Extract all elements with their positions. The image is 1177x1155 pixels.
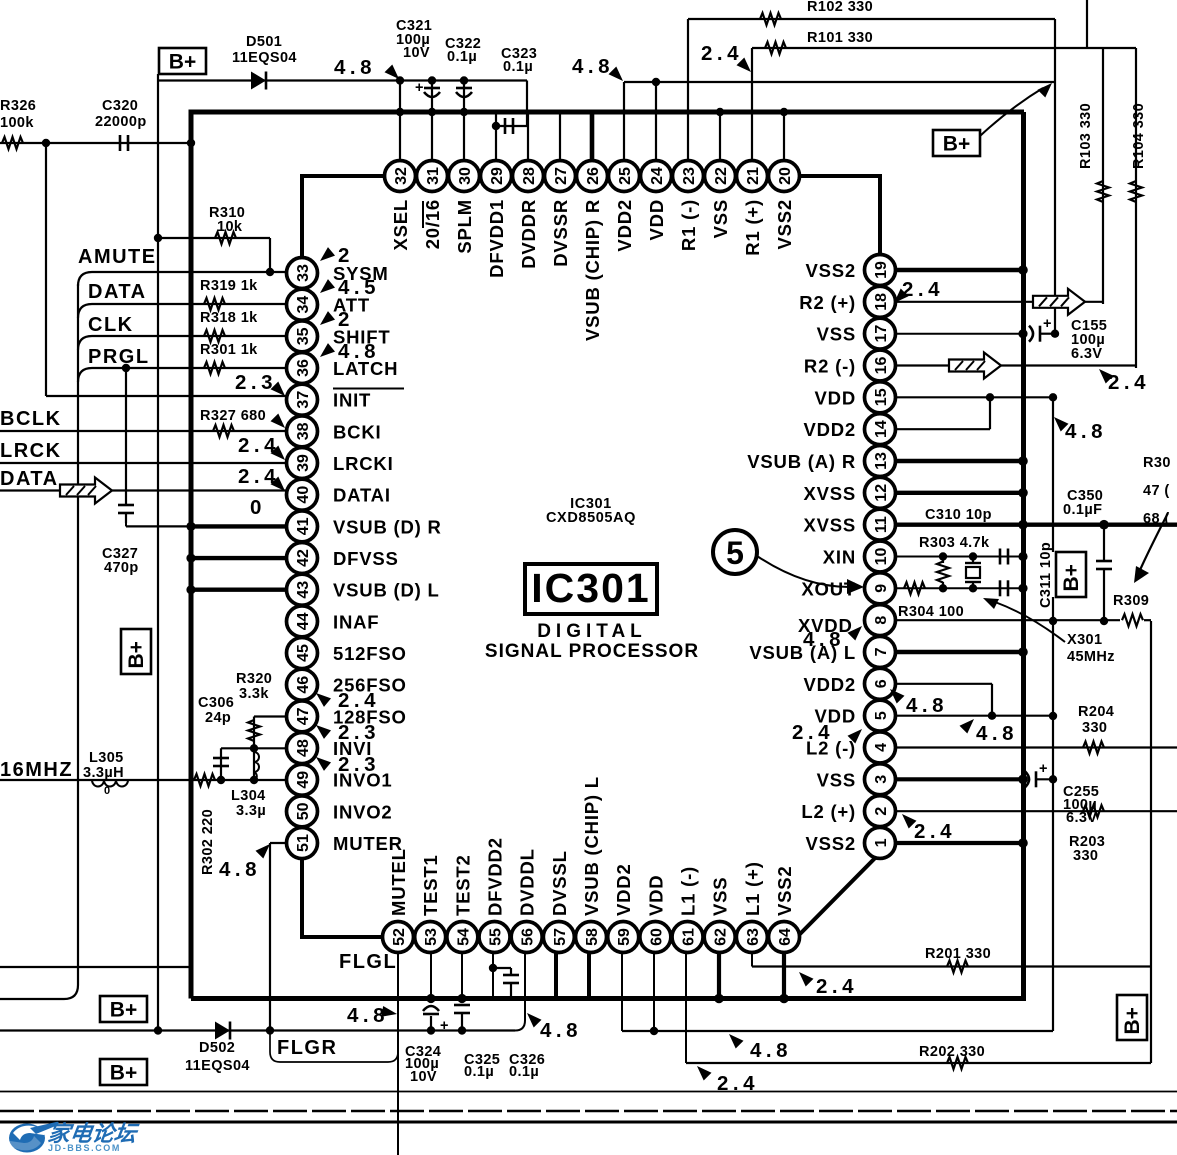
- svg-text:VSUB (CHIP) L: VSUB (CHIP) L: [581, 776, 602, 916]
- svg-text:64: 64: [777, 928, 794, 946]
- svg-text:4.5: 4.5: [338, 276, 380, 299]
- svg-text:8: 8: [873, 616, 890, 625]
- svg-text:CXD8505AQ: CXD8505AQ: [546, 510, 636, 526]
- svg-text:FLGL: FLGL: [339, 951, 397, 973]
- svg-text:3: 3: [873, 775, 890, 784]
- svg-text:13: 13: [873, 452, 890, 470]
- svg-text:VSUB (D) R: VSUB (D) R: [333, 516, 442, 537]
- svg-text:0.1µ: 0.1µ: [447, 49, 477, 65]
- svg-text:TEST1: TEST1: [420, 854, 441, 916]
- svg-text:SPLM: SPLM: [454, 199, 475, 254]
- svg-text:DIGITAL: DIGITAL: [537, 621, 647, 642]
- svg-text:56: 56: [520, 928, 537, 946]
- svg-text:C311 10p: C311 10p: [1038, 542, 1054, 608]
- svg-text:330: 330: [1073, 848, 1098, 864]
- svg-text:VDD: VDD: [815, 387, 856, 408]
- svg-text:L1 (-): L1 (-): [678, 866, 699, 916]
- svg-text:10: 10: [873, 547, 890, 565]
- svg-text:VSS: VSS: [817, 324, 856, 345]
- svg-text:R104 330: R104 330: [1131, 103, 1147, 169]
- svg-text:10k: 10k: [217, 219, 243, 235]
- svg-text:D501: D501: [246, 34, 282, 50]
- svg-text:2: 2: [873, 807, 890, 816]
- svg-text:R304 100: R304 100: [898, 604, 964, 620]
- svg-text:60: 60: [648, 928, 665, 946]
- svg-text:26: 26: [585, 167, 602, 185]
- svg-text:42: 42: [295, 549, 312, 567]
- svg-text:C306: C306: [198, 695, 234, 711]
- svg-text:470p: 470p: [104, 560, 139, 576]
- svg-text:DFVSS: DFVSS: [333, 548, 399, 569]
- svg-text:5: 5: [873, 711, 890, 720]
- svg-text:57: 57: [552, 928, 569, 946]
- svg-text:XOUT: XOUT: [801, 578, 856, 599]
- svg-text:512FSO: 512FSO: [333, 643, 407, 664]
- svg-text:17: 17: [873, 325, 890, 343]
- svg-text:48: 48: [295, 739, 312, 757]
- svg-text:2.4: 2.4: [1108, 371, 1150, 394]
- svg-text:MUTER: MUTER: [333, 833, 403, 854]
- svg-text:XIN: XIN: [823, 546, 856, 567]
- svg-text:2.4: 2.4: [902, 278, 944, 301]
- svg-text:DFVDD2: DFVDD2: [485, 837, 506, 916]
- svg-text:XVSS: XVSS: [803, 515, 856, 536]
- svg-text:32: 32: [393, 167, 410, 185]
- svg-text:58: 58: [584, 928, 601, 946]
- svg-text:DATA: DATA: [0, 468, 59, 490]
- svg-text:VSUB (A) R: VSUB (A) R: [747, 451, 856, 472]
- svg-text:4.8: 4.8: [750, 1039, 792, 1062]
- svg-text:23: 23: [681, 167, 698, 185]
- svg-text:VSS2: VSS2: [774, 199, 795, 250]
- svg-text:55: 55: [488, 928, 505, 946]
- svg-text:16: 16: [873, 356, 890, 374]
- svg-text:L304: L304: [231, 788, 266, 804]
- svg-text:+: +: [1043, 316, 1052, 332]
- svg-text:BCLK: BCLK: [0, 408, 62, 430]
- svg-text:10V: 10V: [410, 1069, 437, 1085]
- svg-text:DVDDL: DVDDL: [517, 848, 538, 916]
- svg-text:33: 33: [295, 264, 312, 282]
- svg-text:VSS: VSS: [710, 199, 731, 238]
- svg-text:0.1µF: 0.1µF: [1063, 502, 1102, 518]
- svg-text:2.4: 2.4: [338, 689, 380, 712]
- svg-text:49: 49: [295, 771, 312, 789]
- svg-text:C310 10p: C310 10p: [925, 507, 992, 523]
- svg-text:L2 (+): L2 (+): [801, 801, 856, 822]
- svg-text:R201 330: R201 330: [925, 946, 991, 962]
- svg-text:4: 4: [873, 743, 890, 752]
- svg-text:20: 20: [777, 167, 794, 185]
- svg-text:44: 44: [295, 612, 312, 630]
- svg-text:41: 41: [295, 517, 312, 535]
- svg-text:38: 38: [295, 422, 312, 440]
- svg-text:B+: B+: [169, 51, 196, 74]
- svg-text:37: 37: [295, 391, 312, 409]
- svg-text:21: 21: [745, 167, 762, 185]
- svg-text:12: 12: [873, 484, 890, 502]
- svg-text:28: 28: [521, 167, 538, 185]
- svg-text:24: 24: [649, 167, 666, 185]
- svg-text:+: +: [440, 1018, 449, 1034]
- svg-text:R103 330: R103 330: [1078, 103, 1094, 169]
- svg-text:36: 36: [295, 359, 312, 377]
- svg-text:51: 51: [295, 834, 312, 852]
- svg-text:R30: R30: [1143, 455, 1171, 471]
- svg-text:VSS2: VSS2: [805, 260, 856, 281]
- svg-text:JD-BBS.COM: JD-BBS.COM: [48, 1143, 121, 1153]
- svg-text:45: 45: [295, 644, 312, 662]
- svg-text:R302 220: R302 220: [200, 809, 216, 875]
- svg-text:AMUTE: AMUTE: [78, 246, 157, 268]
- svg-text:0.1µ: 0.1µ: [503, 59, 533, 75]
- svg-text:X301: X301: [1067, 632, 1102, 648]
- svg-text:4.8: 4.8: [540, 1019, 582, 1042]
- svg-text:R102 330: R102 330: [807, 0, 873, 15]
- svg-text:24p: 24p: [205, 710, 231, 726]
- svg-text:IC301: IC301: [531, 565, 650, 611]
- svg-text:50: 50: [295, 802, 312, 820]
- svg-text:27: 27: [553, 167, 570, 185]
- svg-text:3.3µ: 3.3µ: [236, 803, 266, 819]
- svg-text:BCKI: BCKI: [333, 421, 381, 442]
- svg-text:R318 1k: R318 1k: [200, 310, 258, 326]
- svg-text:2.4: 2.4: [701, 42, 743, 65]
- svg-text:4.8: 4.8: [334, 56, 376, 79]
- svg-text:9: 9: [873, 584, 890, 593]
- svg-text:VSS2: VSS2: [805, 833, 856, 854]
- svg-text:R319 1k: R319 1k: [200, 278, 258, 294]
- svg-text:B+: B+: [110, 1062, 137, 1085]
- svg-text:4.8: 4.8: [976, 722, 1018, 745]
- svg-text:R301 1k: R301 1k: [200, 342, 258, 358]
- svg-text:40: 40: [295, 486, 312, 504]
- svg-text:VDD: VDD: [645, 875, 666, 916]
- svg-text:4.8: 4.8: [1065, 420, 1107, 443]
- svg-text:30: 30: [457, 167, 474, 185]
- svg-text:47 (: 47 (: [1143, 483, 1170, 499]
- svg-text:LRCK: LRCK: [0, 440, 62, 462]
- svg-text:DATA: DATA: [88, 281, 147, 303]
- svg-text:R1 (-): R1 (-): [678, 199, 699, 251]
- svg-text:25: 25: [617, 167, 634, 185]
- svg-text:DVDDR: DVDDR: [518, 199, 539, 269]
- svg-text:VDD2: VDD2: [614, 199, 635, 252]
- svg-text:R303 4.7k: R303 4.7k: [919, 535, 990, 551]
- svg-text:R309: R309: [1113, 593, 1149, 609]
- svg-text:61: 61: [681, 928, 698, 946]
- svg-text:2.4: 2.4: [816, 975, 858, 998]
- svg-text:53: 53: [423, 928, 440, 946]
- svg-text:R101 330: R101 330: [807, 30, 873, 46]
- svg-text:DVSSR: DVSSR: [550, 199, 571, 267]
- svg-text:VSUB (D) L: VSUB (D) L: [333, 580, 440, 601]
- svg-text:B+: B+: [943, 133, 970, 156]
- svg-text:22: 22: [713, 167, 730, 185]
- svg-text:VSS2: VSS2: [774, 865, 795, 916]
- svg-text:14: 14: [873, 420, 890, 438]
- svg-text:L305: L305: [89, 750, 124, 766]
- svg-text:TEST2: TEST2: [452, 854, 473, 916]
- svg-text:6.3V: 6.3V: [1071, 346, 1102, 362]
- svg-text:19: 19: [873, 261, 890, 279]
- svg-text:5: 5: [726, 535, 744, 571]
- svg-text:B+: B+: [110, 999, 137, 1022]
- svg-text:R202 330: R202 330: [919, 1044, 985, 1060]
- svg-text:29: 29: [489, 167, 506, 185]
- svg-text:R2 (+): R2 (+): [799, 292, 856, 313]
- svg-text:CLK: CLK: [88, 314, 134, 336]
- svg-text:2.3: 2.3: [338, 721, 380, 744]
- svg-text:11: 11: [873, 516, 890, 533]
- svg-text:45MHz: 45MHz: [1067, 649, 1115, 665]
- svg-text:11EQS04: 11EQS04: [185, 1058, 250, 1074]
- svg-text:R204: R204: [1078, 704, 1114, 720]
- svg-text:330: 330: [1082, 720, 1107, 736]
- svg-text:100k: 100k: [0, 115, 34, 131]
- svg-text:2.4: 2.4: [914, 820, 956, 843]
- svg-text:7: 7: [873, 647, 890, 656]
- svg-text:VDD2: VDD2: [613, 863, 634, 916]
- svg-text:0: 0: [250, 496, 266, 519]
- svg-text:6.3V: 6.3V: [1066, 810, 1097, 826]
- svg-text:SIGNAL PROCESSOR: SIGNAL PROCESSOR: [485, 641, 699, 662]
- svg-text:6: 6: [873, 679, 890, 688]
- svg-text:C320: C320: [102, 98, 138, 114]
- svg-text:4.8: 4.8: [803, 628, 845, 651]
- svg-text:PRGL: PRGL: [88, 346, 150, 368]
- svg-text:DVSSL: DVSSL: [549, 850, 570, 916]
- svg-text:39: 39: [295, 454, 312, 472]
- svg-text:22000p: 22000p: [95, 114, 147, 130]
- svg-text:52: 52: [391, 928, 408, 946]
- svg-text:MUTEL: MUTEL: [388, 848, 409, 916]
- svg-text:B+: B+: [1060, 564, 1083, 591]
- svg-text:R2 (-): R2 (-): [804, 355, 856, 376]
- svg-text:59: 59: [616, 928, 633, 946]
- svg-text:16MHZ: 16MHZ: [0, 759, 73, 781]
- svg-text:INVO2: INVO2: [333, 801, 393, 822]
- svg-text:R1 (+): R1 (+): [742, 199, 763, 256]
- svg-text:43: 43: [295, 581, 312, 599]
- svg-text:R327 680: R327 680: [200, 408, 266, 424]
- svg-text:VSS: VSS: [710, 877, 731, 916]
- svg-text:18: 18: [873, 293, 890, 311]
- svg-text:XVSS: XVSS: [803, 483, 856, 504]
- svg-text:2.3: 2.3: [235, 371, 277, 394]
- svg-text:63: 63: [745, 928, 762, 946]
- svg-text:11EQS04: 11EQS04: [232, 50, 297, 66]
- svg-text:4.8: 4.8: [572, 55, 614, 78]
- svg-text:2: 2: [338, 244, 354, 267]
- svg-text:DATAI: DATAI: [333, 485, 391, 506]
- svg-text:54: 54: [455, 928, 472, 946]
- svg-text:35: 35: [295, 327, 312, 345]
- svg-text:15: 15: [873, 388, 890, 406]
- svg-text:L1 (+): L1 (+): [742, 861, 763, 916]
- svg-text:2.3: 2.3: [338, 753, 380, 776]
- svg-text:2.4: 2.4: [792, 721, 834, 744]
- svg-text:46: 46: [295, 676, 312, 694]
- svg-text:VSUB (CHIP) R: VSUB (CHIP) R: [582, 199, 603, 341]
- svg-text:R320: R320: [236, 671, 272, 687]
- svg-text:D502: D502: [199, 1040, 235, 1056]
- svg-text:VDD: VDD: [646, 199, 667, 240]
- svg-text:+: +: [415, 80, 424, 96]
- svg-text:3.3µH: 3.3µH: [83, 765, 124, 781]
- svg-text:0.1µ: 0.1µ: [509, 1064, 539, 1080]
- svg-text:62: 62: [713, 928, 730, 946]
- svg-text:+: +: [1039, 761, 1048, 777]
- svg-text:0.1µ: 0.1µ: [464, 1064, 494, 1080]
- svg-text:4.8: 4.8: [906, 694, 948, 717]
- svg-text:R326: R326: [0, 98, 36, 114]
- svg-text:INAF: INAF: [333, 611, 379, 632]
- svg-text:0: 0: [104, 785, 110, 797]
- svg-text:4.8: 4.8: [338, 340, 380, 363]
- svg-text:47: 47: [295, 707, 312, 725]
- svg-text:2: 2: [338, 308, 354, 331]
- svg-text:34: 34: [295, 296, 312, 314]
- svg-text:VDD2: VDD2: [803, 419, 856, 440]
- svg-text:XSEL: XSEL: [390, 199, 411, 251]
- svg-text:1: 1: [873, 838, 890, 847]
- svg-text:VSS: VSS: [817, 769, 856, 790]
- svg-text:VDD2: VDD2: [803, 674, 856, 695]
- svg-text:2.4: 2.4: [717, 1072, 759, 1095]
- svg-text:4.8: 4.8: [219, 858, 261, 881]
- svg-text:INIT: INIT: [333, 390, 371, 411]
- svg-text:20/16: 20/16: [422, 199, 443, 249]
- svg-text:FLGR: FLGR: [277, 1037, 337, 1059]
- svg-text:10V: 10V: [403, 45, 430, 61]
- svg-text:31: 31: [425, 167, 442, 185]
- svg-text:B+: B+: [1121, 1007, 1144, 1034]
- svg-text:DFVDD1: DFVDD1: [486, 199, 507, 278]
- svg-text:LRCKI: LRCKI: [333, 453, 394, 474]
- svg-text:B+: B+: [125, 641, 148, 668]
- svg-text:3.3k: 3.3k: [239, 686, 269, 702]
